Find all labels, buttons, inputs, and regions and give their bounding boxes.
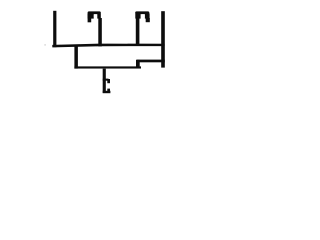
node: faint speck left of bus end (44, 44, 46, 45)
hook terminal J2 (arch with eyelet, long left leg) (135, 11, 150, 44)
wire: right vertical (161, 11, 165, 67)
wire: lower horizontal (74, 66, 141, 68)
wire: left vertical stub (53, 11, 56, 47)
hook terminal J1 (arch with eyelet, long right leg) (88, 11, 102, 46)
connector bracket E1 (103, 69, 111, 94)
wire: step vertical (136, 60, 140, 68)
wire: upper horizontal to right vertical (137, 60, 165, 63)
wire: drop vertical from bus (74, 46, 78, 69)
wire: horizontal bus (slightly warped scan) (52, 44, 164, 48)
